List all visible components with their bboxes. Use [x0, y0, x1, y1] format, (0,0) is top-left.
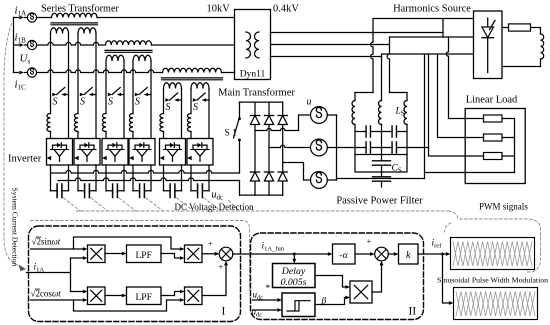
wire filter bottom frame: [355, 154, 407, 156]
capacitor dc-link C2: [78, 190, 96, 192]
AC source u circle 3: [311, 172, 328, 189]
inductor harmonics load: [541, 34, 544, 59]
AC source circle phase A: [25, 17, 28, 19]
wire M3 to adder: [202, 253, 214, 255]
block k: [399, 244, 419, 264]
inductor leg 5: [160, 114, 164, 132]
svg-text:LPF: LPF: [136, 251, 152, 261]
wire inverter leg left 3: [105, 61, 107, 114]
wire module 4 dc legs: [132, 165, 134, 191]
svg-text:0.005s: 0.005s: [281, 277, 307, 288]
wire harmonics feed 3: [382, 54, 474, 57]
svg-text:Inverter: Inverter: [8, 154, 42, 165]
rectifier leg 2 with diodes: [268, 102, 270, 195]
wire delay to mult5: [315, 276, 345, 288]
inductor leg 3: [102, 114, 106, 132]
wire rectifier ac leg1 to source: [255, 128, 299, 130]
winding series-transformer A primary: [52, 13, 98, 17]
svg-text:10kV: 10kV: [207, 4, 231, 15]
main transformer T1 box: [235, 10, 271, 80]
filter leg 3 inductor Ls: [406, 93, 408, 101]
resistor linear load 2: [465, 137, 514, 139]
adder sum2: [375, 247, 389, 261]
capacitor filter row y=131: [355, 131, 382, 133]
wire cos input: [31, 299, 83, 301]
wire 0.4kV bus line 2: [271, 44, 390, 46]
svg-text:Delay: Delay: [281, 266, 306, 277]
arrow system current detection: [19, 265, 27, 272]
multiplier M3: [185, 245, 203, 263]
svg-text:S: S: [193, 102, 198, 113]
AC source u circle 2: [311, 139, 328, 156]
wire filter drop 3: [381, 57, 383, 101]
svg-text:LPF: LPF: [136, 293, 152, 303]
rectifier leg 3 with diodes: [282, 102, 284, 195]
wire linear load right collector: [514, 119, 516, 173]
multiplier M1: [88, 245, 106, 263]
wire cos bypass: [74, 300, 180, 311]
wire inverter leg right 6: [208, 89, 210, 139]
rectifier leg 1 with diodes: [254, 102, 256, 195]
svg-text:I: I: [222, 306, 226, 318]
dashed box II: [251, 233, 424, 320]
switch S3: [108, 93, 112, 97]
dashed dc-detection tap udc: [229, 201, 240, 212]
wire module 6 dc legs: [190, 165, 192, 191]
block LPF2: [127, 287, 162, 305]
wire rectifier ac leg2 to source: [269, 145, 311, 147]
svg-text:S: S: [135, 97, 140, 108]
block SPWM 1: [451, 238, 535, 270]
dashed dc-detection tap 6: [204, 198, 221, 211]
winding series-transformer secondary 6: [191, 83, 209, 89]
capacitor dc-link C1: [51, 190, 69, 192]
capacitor dc-link C3: [106, 190, 124, 192]
switch S4: [135, 93, 139, 97]
inductor leg 6: [187, 114, 191, 132]
wire module 2 dc legs: [77, 165, 79, 191]
wire neutral to loads upper: [337, 147, 356, 149]
capacitor filter row y=131: [382, 131, 408, 133]
svg-text:PWM signals: PWM signals: [479, 202, 528, 212]
dashed system current detection line: [4, 24, 20, 267]
wire module 5 dc legs: [163, 165, 165, 191]
wire dc bus lower: [58, 178, 240, 181]
block -alpha: [333, 244, 356, 264]
dashed dc-detection tap 2: [91, 198, 108, 211]
linear load box: [465, 109, 525, 184]
svg-text:0.4kV: 0.4kV: [273, 4, 299, 15]
resistor harmonics load: [502, 27, 509, 29]
wire inverter leg right 1: [68, 34, 70, 139]
junction dot delay tap: [293, 253, 296, 256]
core series-transformer B: [105, 50, 152, 52]
svg-text:Passive Power Filter: Passive Power Filter: [336, 196, 423, 207]
main transformer windings: [246, 32, 251, 58]
inverter module U4: [129, 139, 155, 166]
wire inverter leg right 4: [150, 61, 152, 139]
filter leg 1 inductor Ls: [354, 93, 356, 101]
capacitor filter row y=147: [382, 147, 408, 149]
multiplier M5: [350, 281, 372, 303]
wire inverter leg right 2: [95, 34, 97, 139]
wire udc star input: [253, 299, 278, 301]
svg-text:DC Voltage Detection: DC Voltage Detection: [175, 202, 255, 212]
svg-text:√2cosωt: √2cosωt: [31, 289, 62, 299]
wire 0.4kV bus line 1: [271, 32, 444, 34]
wire load feeder 2: [438, 54, 466, 138]
dashed dc-detection tap 1: [64, 198, 81, 211]
svg-text:Series Transformer: Series Transformer: [41, 4, 119, 15]
switch S6: [193, 98, 197, 102]
wire adder1 to alpha: [233, 253, 328, 255]
block LPF1: [127, 245, 162, 263]
svg-text:*: *: [266, 284, 271, 294]
wire inverter leg left 1: [50, 34, 52, 114]
winding series-transformer secondary 5: [164, 83, 182, 89]
wire neutral to loads lower: [337, 178, 425, 180]
wire phase C line: [37, 70, 163, 73]
wire M4 to adder: [202, 266, 226, 296]
svg-text:S: S: [80, 97, 85, 108]
wire bus connector stub: [442, 19, 444, 38]
winding series-transformer secondary 3: [106, 55, 124, 61]
wire inverter leg right 3: [123, 61, 125, 139]
svg-text:+: +: [208, 239, 213, 249]
core series-transformer A: [51, 23, 98, 25]
winding series-transformer secondary 4: [133, 55, 151, 61]
wire k to pwm: [418, 253, 446, 255]
svg-text:System Current Detection: System Current Detection: [11, 188, 20, 267]
wire rectifier dc minus out: [239, 181, 241, 196]
wire hysteresis to mult5: [315, 298, 345, 305]
svg-text:Harmonics Source: Harmonics Source: [393, 4, 471, 15]
winding series-transformer secondary 1: [51, 28, 69, 34]
switch S1: [52, 93, 56, 97]
switch S5: [165, 98, 169, 102]
wire sin bypass: [74, 237, 180, 249]
source arrow phase A: [14, 17, 19, 19]
inductor leg 2: [74, 114, 78, 132]
AC source u circle 1: [311, 107, 328, 124]
inductor leg 1: [47, 114, 51, 132]
wire mult5 to adder2: [372, 266, 382, 292]
wire M1 to LPF1: [105, 253, 122, 255]
switch S1: [239, 102, 241, 117]
block SPWM 2: [454, 288, 538, 320]
adder sum1: [219, 247, 233, 261]
svg-text:S: S: [53, 97, 58, 108]
capacitor dc-link C4: [133, 190, 151, 192]
capacitor filter row y=147: [355, 147, 382, 149]
wire sin input: [31, 248, 83, 250]
wire inverter leg left 2: [77, 34, 79, 114]
wire load feeder 1: [446, 37, 448, 119]
wire adder2 to k: [388, 253, 393, 255]
wire M2 to LPF2: [105, 295, 122, 297]
AC source circle phase B: [25, 44, 28, 46]
svg-text:-α: -α: [339, 251, 348, 261]
wire phase A line: [37, 17, 52, 19]
dashed dc-detection tap 3: [119, 198, 136, 211]
wire tap to delay: [293, 254, 295, 259]
dashed dc-detection bus: [77, 210, 449, 212]
svg-text:+: +: [219, 262, 224, 272]
wire harmonics feed 2: [390, 37, 474, 45]
svg-text:u: u: [307, 97, 312, 108]
svg-text:√2sinωt: √2sinωt: [32, 237, 61, 247]
inverter module U1: [47, 139, 73, 166]
wire alpha to adder2: [355, 253, 370, 255]
resistor linear load 1: [465, 118, 514, 120]
harmonics source box: [474, 11, 503, 79]
svg-text:Sinusoidal Pulse Width Modulat: Sinusoidal Pulse Width Modulation: [437, 276, 548, 285]
svg-text:S 1: S 1: [225, 129, 238, 139]
inverter module U3: [102, 139, 128, 166]
svg-text:Main Transformer: Main Transformer: [218, 88, 295, 99]
multiplier M4: [185, 287, 203, 305]
resistor linear load 3: [465, 155, 514, 157]
wire module 1 dc legs: [50, 165, 52, 191]
winding series-transformer C primary: [163, 68, 222, 72]
svg-text:Linear Load: Linear Load: [466, 95, 518, 106]
capacitor Cs lower: [381, 172, 383, 187]
svg-text:Dyn11: Dyn11: [240, 70, 266, 80]
wire filter drop 2: [387, 45, 389, 93]
wire inverter leg left 6: [190, 89, 192, 114]
inverter module U5: [160, 139, 186, 166]
rectifier bridge rails: [240, 101, 283, 103]
dashed link to pwm region: [449, 211, 541, 272]
dashed dc-detection tap 4: [146, 198, 163, 211]
wire source bus vertical: [13, 18, 15, 73]
wire u sources neutral vertical: [336, 115, 338, 180]
wire udc input: [253, 309, 278, 311]
dashed udc feed line: [31, 221, 250, 291]
wire inverter leg left 5: [163, 89, 165, 114]
source arrow phase C: [14, 72, 19, 74]
switch S2: [80, 93, 84, 97]
dashed dc-detection tap 5: [177, 198, 194, 211]
capacitor dc-link C5: [164, 190, 182, 192]
wire LPF1 to M3: [161, 254, 180, 259]
block Delay 0.005s: [273, 264, 316, 288]
core series-transformer C: [162, 78, 223, 80]
wire inverter leg right 5: [181, 89, 183, 139]
multiplier M2: [88, 287, 106, 305]
svg-text:k: k: [406, 250, 411, 261]
svg-text:S: S: [166, 102, 171, 113]
wire dc bus upper: [51, 170, 240, 173]
winding series-transformer B primary: [106, 41, 152, 45]
wire filter drop 1: [371, 33, 373, 93]
wire 0.4kV bus line 3: [271, 56, 382, 58]
svg-text:S: S: [108, 97, 113, 108]
capacitor dc-link C6: [191, 190, 209, 192]
wire i1A input: [27, 258, 71, 292]
wire inverter leg left 4: [132, 61, 134, 114]
capacitor Cs upper: [381, 155, 383, 173]
wire phase B line: [37, 42, 106, 45]
winding series-transformer secondary 2: [78, 28, 96, 34]
thyristor in harmonics source: [487, 18, 489, 27]
wire rectifier ac leg3 to source: [283, 163, 311, 181]
dashed box I: [29, 226, 241, 322]
filter leg 2 inductor Ls: [379, 101, 382, 125]
source arrow phase B: [14, 44, 19, 46]
svg-text:β: β: [321, 297, 327, 307]
inverter module U6: [187, 139, 213, 166]
junction dot pwm branch: [441, 253, 444, 256]
wire load feeder 3: [429, 54, 466, 156]
wire branch to pwm2: [443, 254, 449, 303]
wire module 3 dc legs: [105, 165, 107, 191]
inverter module U2: [74, 139, 100, 166]
wire linear load bottom return: [425, 173, 515, 179]
inductor leg 4: [129, 114, 133, 132]
svg-text:II: II: [409, 306, 417, 318]
wire LPF2 to M4: [161, 292, 180, 296]
wire harmonics feed 1: [373, 19, 474, 33]
svg-text:+: +: [367, 236, 372, 246]
AC source circle phase C: [25, 72, 28, 74]
block hysteresis: [282, 293, 315, 317]
